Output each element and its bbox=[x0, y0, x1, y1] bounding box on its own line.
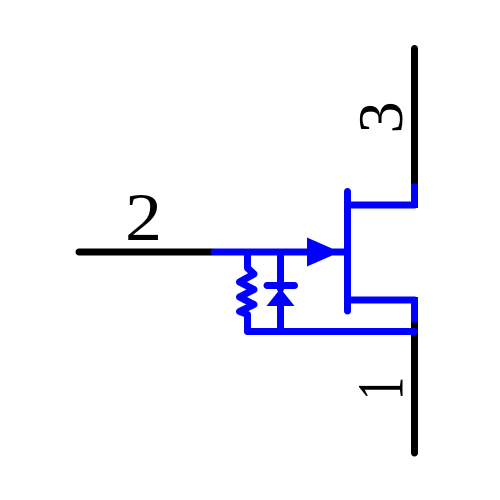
svg-text:2: 2 bbox=[125, 181, 162, 256]
wire: gate net bbox=[214, 249, 348, 256]
svg-text:1: 1 bbox=[346, 377, 418, 400]
diode D1 lead top bbox=[277, 252, 284, 289]
pin 3 (black wire, top right) bbox=[411, 49, 418, 184]
resistor R1 bbox=[240, 252, 255, 332]
wire: drain net vertical bbox=[411, 184, 418, 209]
wire: source net vertical bbox=[411, 297, 418, 323]
transistor Q1 gate arrow bbox=[307, 238, 340, 267]
diode D1 cathode bar bbox=[267, 282, 295, 289]
wire: source net horizontal bbox=[348, 297, 415, 304]
wire: drain net horizontal bbox=[348, 202, 415, 209]
wire: bottom net bbox=[248, 328, 415, 335]
svg-text:3: 3 bbox=[345, 101, 416, 133]
transistor Q1 channel bar bbox=[344, 192, 351, 312]
pin 1 (black wire, bottom right) bbox=[411, 322, 418, 453]
diode D1 lead bottom bbox=[277, 305, 284, 332]
diode D1 triangle bbox=[267, 289, 295, 307]
pin 2 (black wire, left) bbox=[79, 249, 214, 256]
